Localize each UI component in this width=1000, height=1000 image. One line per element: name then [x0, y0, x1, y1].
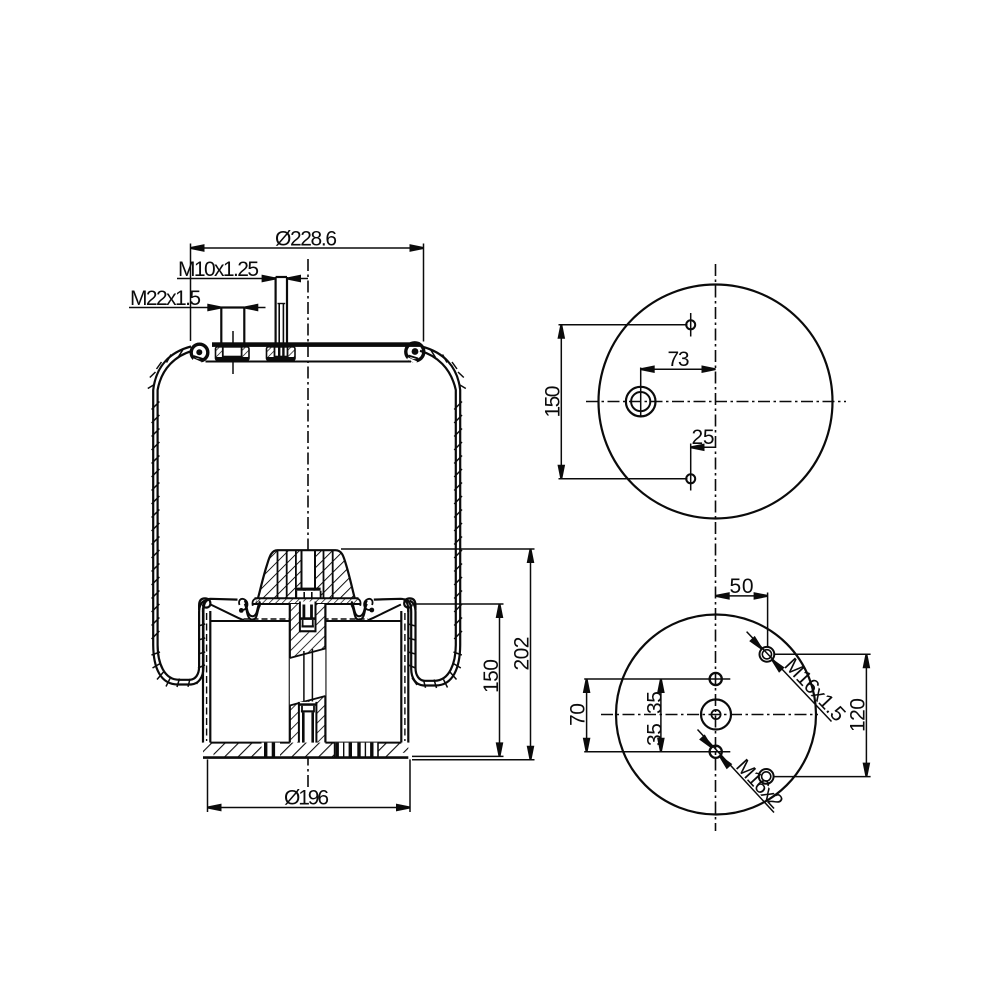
bead left: [191, 344, 208, 361]
column middle relief: [290, 649, 326, 706]
svg-text:150: 150: [480, 659, 503, 693]
bellows rubber top edge under plate: [206, 361, 412, 363]
bolt inserts right: [335, 743, 378, 758]
extension line upper for 150: [559, 324, 688, 326]
dimension 150: [414, 603, 504, 605]
svg-text:35: 35: [644, 723, 667, 746]
hole 35 up: [710, 673, 722, 685]
piston right wall: [374, 599, 409, 612]
piston top inner slant right: [368, 605, 401, 621]
column foot: [284, 743, 335, 758]
membrane dip right: [351, 600, 367, 616]
dimension 70 line: [586, 679, 588, 752]
piston left wall: [203, 599, 238, 612]
bellows roll knot right: [404, 598, 415, 610]
dimension Ø196: [207, 759, 209, 812]
extension line upper (70 / 35): [584, 678, 730, 680]
svg-text:150: 150: [542, 386, 565, 418]
extension lower for 120: [774, 776, 871, 778]
svg-text:M10x1.25: M10x1.25: [178, 258, 259, 281]
piston top hook right: [364, 599, 372, 610]
dimension 35/35 line: [660, 679, 662, 752]
leader M16x1.5: [747, 632, 832, 722]
bolt insert left: [262, 743, 281, 758]
svg-text:Ø228.6: Ø228.6: [275, 228, 337, 251]
svg-text:73: 73: [668, 348, 690, 371]
extension for 50: [767, 593, 769, 648]
extension upper for 120: [775, 653, 871, 655]
M22 lower boss: [216, 347, 250, 360]
M22 center tick: [232, 331, 234, 374]
M10 stud: [275, 277, 277, 343]
dimension 150 line: [560, 325, 562, 479]
bellows inner wall left: [158, 351, 205, 680]
M16 bolt lower right: [759, 769, 774, 784]
svg-text:50: 50: [730, 575, 754, 598]
svg-text:35: 35: [644, 691, 667, 714]
leader M16x2: [698, 730, 775, 813]
vertical centerline (shared by both circular views): [715, 264, 717, 831]
piston bottom circle: [616, 615, 816, 815]
svg-text:M22x1.5: M22x1.5: [130, 287, 201, 310]
extension line lower for 150: [559, 478, 688, 480]
M10 lower boss: [267, 347, 296, 360]
piston top inner slant left: [211, 605, 244, 621]
top plate circle: [599, 285, 833, 519]
rubber bumper: [250, 548, 362, 608]
fitting center tick: [640, 368, 642, 418]
bolt hole top (M10): [686, 320, 695, 329]
dimension 120 line: [865, 654, 867, 776]
bellows outer wall left: [153, 347, 210, 685]
upper cavity bolt: [300, 602, 316, 633]
bellows roll knot left: [199, 598, 210, 610]
central column: [290, 604, 326, 743]
dimension 202: [341, 548, 535, 550]
bolt hole bottom (M10): [686, 474, 695, 483]
piston top hook left: [239, 599, 247, 610]
bolt bottom tick: [690, 444, 692, 491]
dimension 25 leader: [691, 446, 716, 448]
air fitting M22 inner circle: [631, 392, 650, 411]
piston floor hidden line: [244, 618, 290, 620]
plate bottom edge: [203, 756, 408, 759]
bellows inner wall right: [410, 351, 456, 681]
M16 bolt upper right: [760, 647, 775, 662]
piston bottom plate: [203, 743, 408, 758]
dimension 50 line: [716, 595, 768, 597]
main centerline: [307, 259, 309, 787]
center hole inner: [711, 710, 720, 719]
horizontal centerline: [586, 401, 846, 403]
center hole outer: [701, 700, 731, 730]
bumper bolt slot: [302, 548, 316, 590]
M22 air fitting boss: [220, 308, 222, 343]
svg-text:202: 202: [511, 637, 534, 671]
lower cavity bolt: [299, 702, 317, 749]
horizontal centerline: [601, 714, 818, 716]
dimension Ø228.6 line: [191, 247, 424, 249]
bellows outer wall right: [404, 347, 460, 686]
bellows wall ply ticks: [148, 350, 466, 689]
air fitting M22 outer circle: [626, 387, 656, 417]
bumper washer: [296, 588, 320, 591]
bead right: [406, 343, 424, 361]
dimension 73 line: [641, 368, 716, 370]
svg-text:25: 25: [692, 426, 715, 449]
top plate: [212, 342, 420, 347]
svg-text:120: 120: [847, 698, 870, 732]
rivet dot right: [369, 608, 374, 613]
extension line lower (70 / 35): [584, 751, 730, 753]
bolt top tick: [690, 313, 692, 337]
piston floor: [210, 620, 289, 622]
rivet dot left: [239, 608, 244, 613]
svg-text:70: 70: [567, 703, 590, 726]
extension right Ø228.6: [423, 244, 425, 342]
hole 35 down: [710, 746, 722, 758]
membrane dip left: [245, 600, 261, 616]
extension left Ø228.6: [190, 244, 192, 342]
svg-text:Ø196: Ø196: [284, 787, 329, 810]
bumper base plate band: [257, 598, 358, 603]
